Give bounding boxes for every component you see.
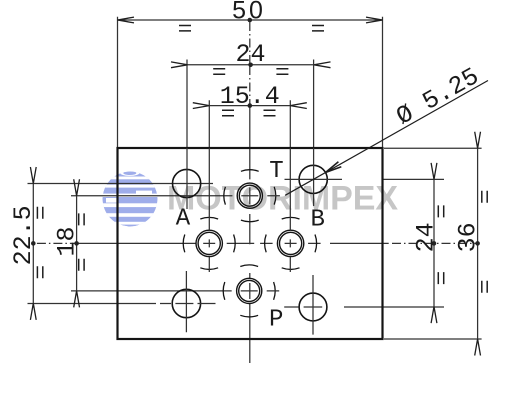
port A (183, 148, 235, 272)
port B (265, 148, 317, 272)
svg-text:18: 18 (52, 226, 81, 256)
svg-text:A: A (176, 206, 191, 233)
dimension 15.4 (A-B port spacing) (193, 82, 307, 148)
vertical centerline (symmetry axis) (249, 22, 251, 363)
horizontal centerline (A-B port axis) (37, 242, 478, 244)
dimension 22.5 (left, mounting hole vertical spacing) (9, 167, 213, 320)
dimension 36 (right, overall height) (384, 132, 487, 356)
plate outline (118, 148, 383, 339)
watermark globe logo (100, 170, 160, 227)
dimension 18 (left, T-P port vertical spacing) (52, 179, 232, 307)
port T (tank) (224, 170, 280, 222)
svg-text:36: 36 (454, 222, 483, 252)
svg-text:24: 24 (235, 40, 265, 69)
svg-text:P: P (269, 307, 283, 334)
mounting hole bottom-right (284, 275, 327, 335)
svg-text:50: 50 (232, 0, 266, 25)
dimension 50 (overall width) (118, 0, 383, 148)
svg-text:T: T (269, 158, 283, 185)
svg-text:24: 24 (411, 222, 440, 252)
svg-text:15.4: 15.4 (220, 82, 280, 111)
svg-text:B: B (310, 207, 324, 234)
mounting hole top-right (285, 148, 343, 206)
svg-text:MOTORIMPEX: MOTORIMPEX (167, 180, 398, 218)
svg-text:22.5: 22.5 (9, 205, 38, 265)
dimension 24 (top, mounting hole spacing) (171, 40, 331, 148)
mounting hole bottom-left (160, 271, 216, 332)
dimension 24 (right, mounting hole vertical spacing) (344, 163, 444, 323)
port P (pressure) (223, 265, 279, 317)
leader line diameter 5.25 callout (285, 62, 488, 195)
mounting hole top-left (173, 148, 201, 209)
